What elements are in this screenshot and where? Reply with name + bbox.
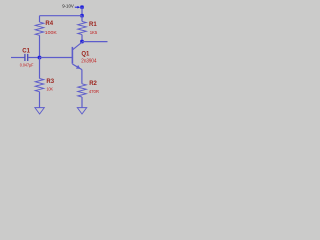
- svg-text:10K: 10K: [47, 87, 54, 93]
- resistor R2: [78, 84, 86, 108]
- svg-text:R4: R4: [45, 21, 53, 27]
- resistor R4: [35, 16, 43, 58]
- ground (R3): [35, 108, 44, 114]
- svg-text:9-10V: 9-10V: [62, 4, 74, 9]
- svg-text:R1: R1: [89, 22, 97, 28]
- svg-text:R2: R2: [89, 81, 97, 87]
- junction dot collector: [80, 40, 84, 44]
- svg-text:1K5: 1K5: [90, 30, 98, 36]
- junction dot rail: [80, 14, 84, 18]
- wire port down to rail: [81, 7, 83, 16]
- ground (R2): [77, 108, 86, 114]
- wire emitter down: [81, 70, 83, 84]
- svg-text:C1: C1: [22, 48, 30, 54]
- svg-text:2n3904: 2n3904: [81, 59, 96, 65]
- svg-text:0.047µF: 0.047µF: [20, 62, 34, 67]
- junction dot base node: [38, 56, 42, 60]
- svg-text:Q1: Q1: [81, 52, 90, 58]
- power port 9-10V label: [62, 4, 74, 9]
- junction dot at power port: [80, 5, 84, 9]
- wire output: [82, 41, 108, 43]
- wire input: [11, 57, 25, 59]
- power port arrow: [75, 6, 80, 9]
- resistor R1: [78, 16, 86, 42]
- capacitor C1: [25, 54, 40, 61]
- resistor R3: [35, 58, 43, 108]
- svg-text:100K: 100K: [45, 30, 58, 36]
- transistor Q1: [72, 42, 82, 69]
- wire supply rail: [40, 15, 83, 17]
- svg-text:R3: R3: [46, 79, 54, 85]
- svg-text:470R: 470R: [89, 89, 100, 95]
- wire base: [40, 57, 73, 59]
